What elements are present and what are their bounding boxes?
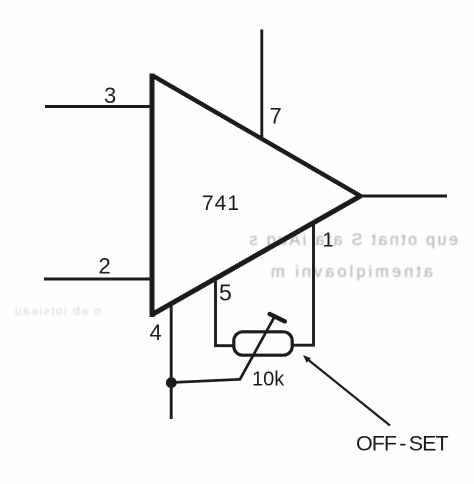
svg-text:o eb iotsieau: o eb iotsieau: [13, 304, 101, 318]
svg-text:1: 1: [323, 230, 334, 252]
svg-text:3: 3: [104, 83, 116, 108]
svg-text:2: 2: [99, 254, 111, 279]
wire pin 5 to potentiometer: [216, 277, 235, 346]
svg-text:4: 4: [150, 320, 162, 345]
junction dot on pin 4 wire: [166, 377, 177, 388]
wire pin 3 input: [45, 105, 152, 108]
potentiometer wiper arrowhead: [270, 314, 285, 321]
svg-text:741: 741: [202, 192, 240, 215]
wire pin 7 V+: [260, 30, 263, 140]
svg-text:7: 7: [270, 104, 282, 129]
svg-text:atnemiqloavni m: atnemiqloavni m: [268, 263, 433, 281]
svg-text:5: 5: [219, 280, 232, 306]
wire pin 1 to potentiometer: [291, 223, 314, 346]
wire wiper to junction: [171, 318, 274, 383]
wire pin 4 V-: [170, 304, 173, 419]
svg-text:10k: 10k: [252, 369, 285, 391]
potentiometer R1 body: [234, 332, 292, 355]
wire output pin 6: [359, 195, 447, 198]
OFF-SET leader arrow: [306, 358, 390, 426]
op-amp U1: [152, 74, 361, 318]
svg-text:OFF - SET: OFF - SET: [356, 432, 448, 456]
wire pin 2 input: [44, 278, 152, 281]
OFF-SET arrowhead: [303, 355, 311, 363]
